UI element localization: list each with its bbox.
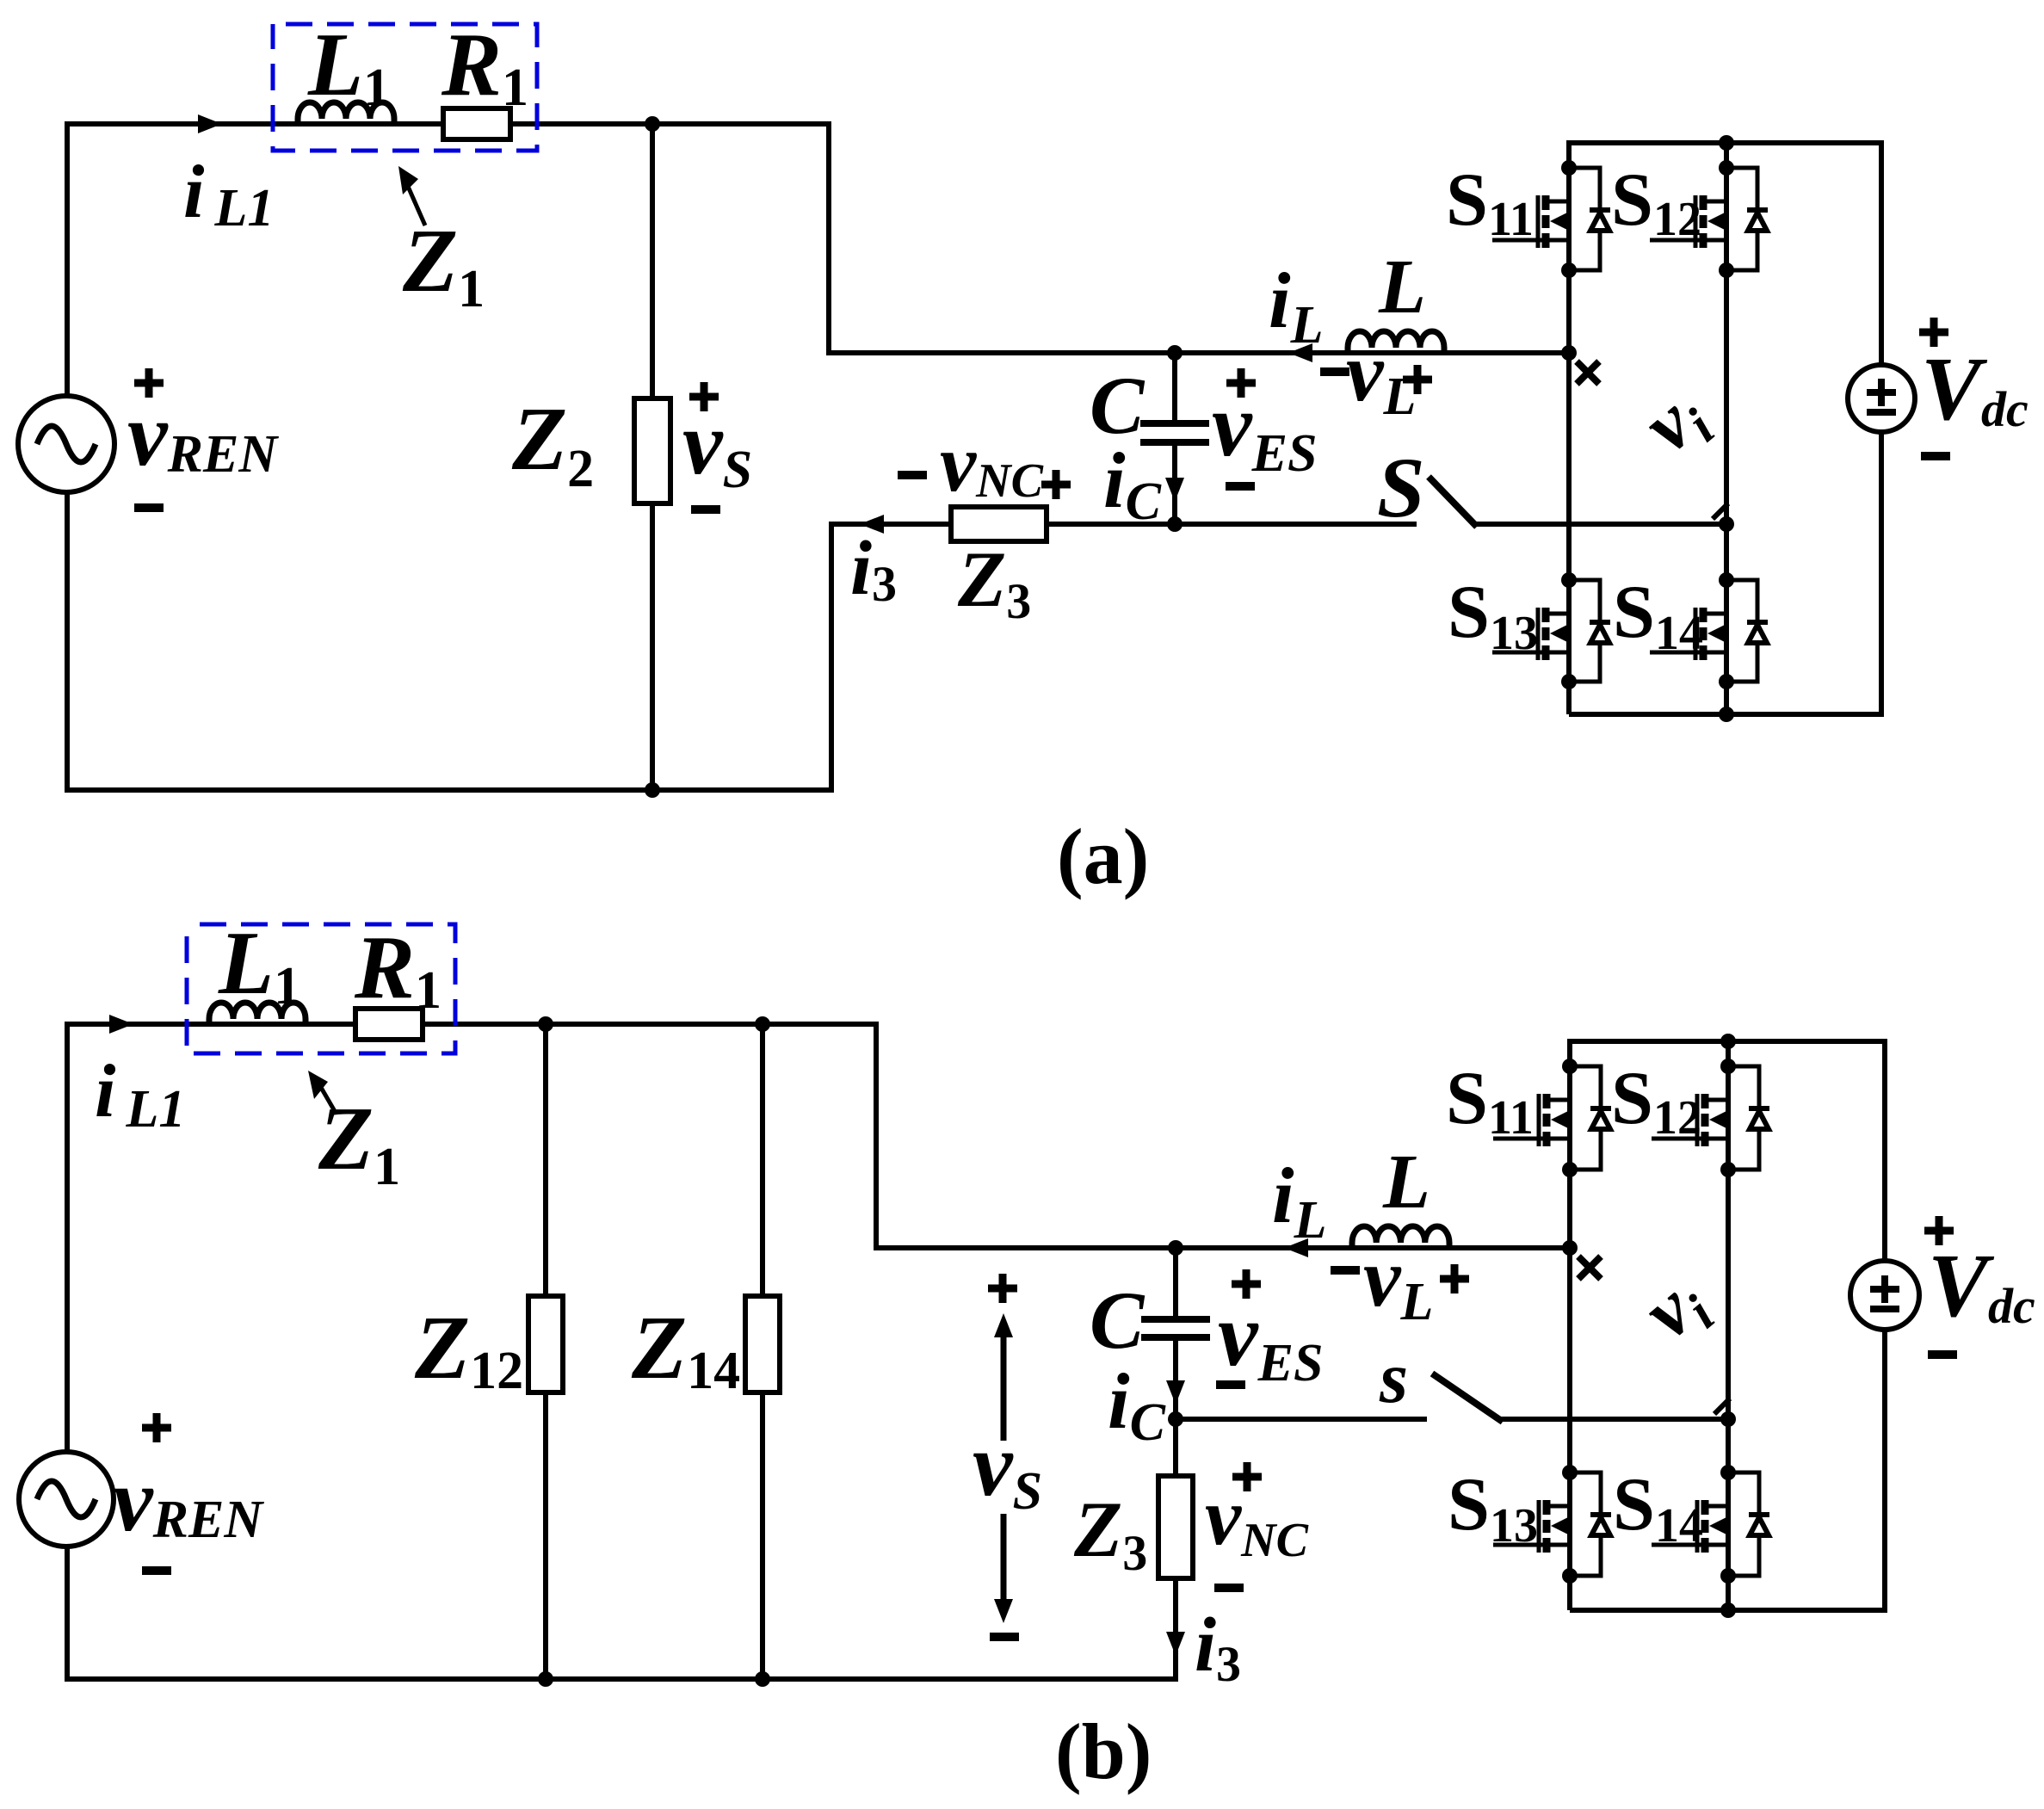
svg-text:(b): (b) (1055, 1707, 1152, 1795)
svg-text:(a): (a) (1057, 812, 1149, 900)
svg-text:s: s (1379, 1337, 1408, 1418)
svg-text:C: C (1090, 1275, 1146, 1366)
svg-text:C: C (1090, 360, 1146, 451)
svg-text:L: L (1382, 1139, 1430, 1225)
svg-text:S: S (1377, 440, 1425, 535)
svg-text:L: L (1378, 244, 1426, 330)
